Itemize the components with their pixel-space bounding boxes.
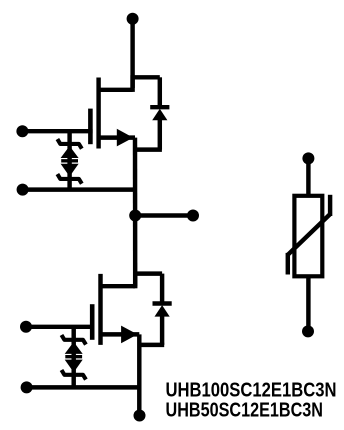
svg-text:UHB50SC12E1BC3N: UHB50SC12E1BC3N xyxy=(166,399,324,421)
svg-text:UHB100SC12E1BC3N: UHB100SC12E1BC3N xyxy=(166,380,337,402)
